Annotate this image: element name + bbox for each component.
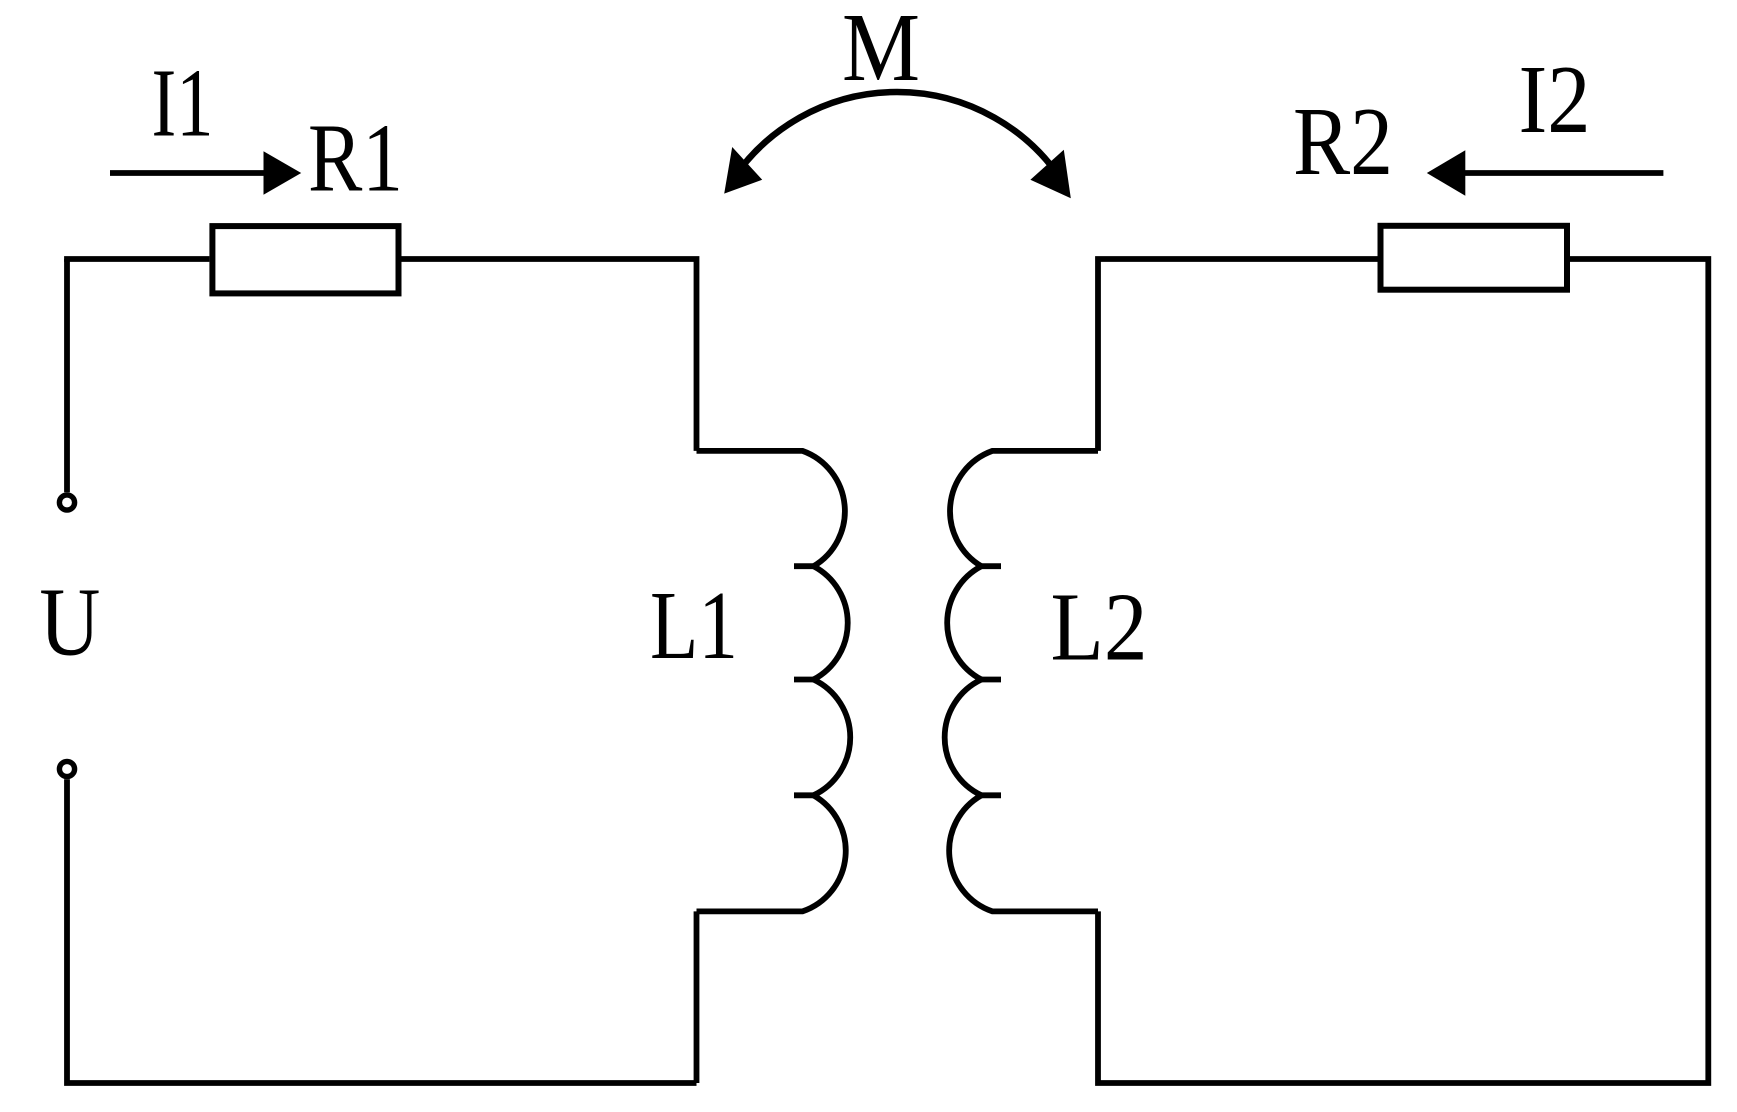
wire L1 bottom to bottom wire	[694, 911, 700, 1083]
L1 cusp tick 1	[794, 563, 814, 569]
wire R2 to right edge, down and along bottom to L2	[1098, 259, 1708, 1083]
current I2 arrowhead	[1427, 150, 1466, 196]
L1 cusp tick 2	[794, 677, 814, 683]
svg-text:R2: R2	[1293, 88, 1393, 195]
L1 cusp tick 3	[794, 792, 814, 798]
resistor R1 body	[212, 226, 398, 293]
svg-text:U: U	[39, 568, 100, 675]
M arc right arrowhead	[1030, 150, 1070, 198]
svg-text:I1: I1	[152, 49, 214, 156]
wire top-left horizontal from source to R1	[67, 259, 209, 262]
terminal lower (U source)	[59, 761, 74, 776]
svg-text:L1: L1	[650, 572, 738, 679]
mutual inductance M arc	[734, 92, 1060, 178]
inductor L2 coil	[945, 451, 1098, 912]
terminal upper (U source)	[59, 495, 74, 510]
inductor L1 coil	[697, 451, 851, 912]
resistor R2 body	[1381, 226, 1568, 290]
current I2 arrow shaft	[1462, 170, 1663, 176]
wire left vertical to upper terminal	[64, 259, 70, 492]
svg-text:I2: I2	[1519, 46, 1591, 153]
current I1 arrow shaft	[110, 170, 268, 176]
svg-text:R1: R1	[308, 104, 403, 211]
wire R1 to L1 top with corner down	[402, 259, 697, 451]
wire L2 top corner to R2	[1098, 259, 1378, 451]
current I1 arrowhead	[264, 151, 302, 195]
M arc left arrowhead	[724, 147, 762, 194]
wire lower terminal to bottom-left corner	[67, 779, 697, 1083]
svg-text:L2: L2	[1051, 573, 1148, 680]
svg-text:M: M	[842, 0, 920, 101]
L2 cusp tick 1	[981, 563, 1001, 569]
L2 cusp tick 3	[981, 792, 1001, 798]
L2 cusp tick 2	[981, 677, 1001, 683]
